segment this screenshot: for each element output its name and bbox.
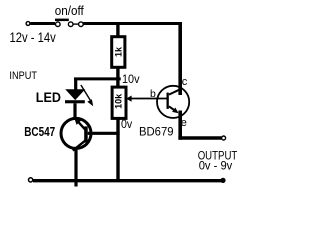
label: 0v - 9v [199, 160, 233, 172]
wire: stub from R1 bottom to 10v node [116, 68, 119, 78]
label: 0v node [121, 119, 132, 131]
terminal: 0v input open circle [29, 178, 33, 182]
wire: bottom 0v rail [33, 179, 222, 182]
label: LED [36, 89, 61, 105]
transistor Q2 BD679 [157, 86, 189, 118]
svg-text:10k: 10k [114, 93, 124, 109]
potentiometer VR1 10k [112, 87, 126, 118]
svg-text:BC547: BC547 [24, 125, 55, 139]
label: c (collector) [182, 76, 188, 88]
svg-text:c: c [182, 76, 188, 88]
svg-text:INPUT: INPUT [9, 70, 37, 82]
wire: LED cathode to BC547 [73, 103, 76, 119]
wire: top rail right segment [83, 22, 182, 25]
svg-text:0v - 9v: 0v - 9v [199, 160, 233, 172]
wire: stub from 10v node to VR1 top [116, 79, 119, 88]
svg-text:1k: 1k [114, 46, 124, 57]
svg-text:LED: LED [36, 89, 61, 105]
wire: BD679 emitter down [178, 111, 182, 140]
svg-text:12v - 14v: 12v - 14v [10, 30, 57, 46]
svg-text:on/off: on/off [55, 4, 84, 18]
label: BC547 [24, 125, 55, 139]
wiper arrow of VR1 [126, 96, 169, 102]
svg-text:10v: 10v [122, 74, 140, 86]
switch S1 on/off [55, 19, 83, 27]
wire: top rail left segment [30, 22, 55, 25]
svg-text:b: b [150, 88, 156, 100]
wire: stub from top rail to R1 top [116, 25, 119, 36]
label: BD679 [139, 124, 174, 138]
wire: collector drop from top rail to BD679 [178, 22, 182, 95]
wire: 10v node junction bar [74, 77, 121, 80]
label: e (emitter) [181, 117, 187, 129]
label: b (base) [150, 88, 156, 100]
wire: LED anode drop [74, 80, 77, 90]
label: 10v node [122, 74, 140, 86]
resistor R1 1k [112, 37, 125, 68]
wire: BC547 bottom lead to 0v rail [74, 149, 77, 187]
svg-text:0v: 0v [121, 119, 132, 131]
transistor Q1 BC547 [61, 117, 91, 150]
label: OUTPUT [198, 150, 238, 162]
svg-text:BD679: BD679 [139, 124, 174, 138]
terminal: output open circle [222, 136, 226, 140]
wire: VR1 bottom to 0v rail [116, 120, 119, 182]
label: INPUT [9, 70, 37, 82]
wire: BC547 base lead to 0v column [88, 132, 120, 135]
wire: output horizontal [178, 136, 221, 139]
label: on/off [55, 4, 84, 18]
junction dot: 0v rail right end [220, 178, 225, 183]
LED D1 [65, 85, 93, 106]
label: 12v - 14v [10, 30, 57, 46]
terminal: +12v input open circle [26, 22, 30, 26]
